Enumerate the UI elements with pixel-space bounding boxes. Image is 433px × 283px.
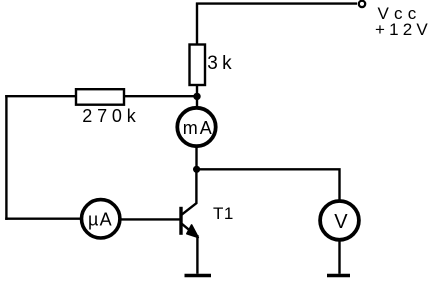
svg-text:3k: 3k [207,53,235,74]
transistor T1 emitter [182,224,197,237]
svg-text:270k: 270k [82,106,140,126]
svg-text:T1: T1 [213,204,234,223]
svg-text:µA: µA [88,209,113,229]
microammeter U2 µA circle [82,200,120,238]
transistor T1 base bar [179,207,182,235]
transistor T1 emitter arrow [187,225,199,238]
wire ammeter to node B [195,146,197,169]
wire Vcc rail down to resistor R1 [196,3,198,45]
svg-text:V: V [334,211,348,233]
wire left rail to resistor R2 [5,95,76,97]
resistor R2 270k [76,89,124,105]
terminal Vcc (open circle) [359,1,365,7]
transistor T1 collector [182,169,197,215]
wire left rail bottom to microammeter [5,217,82,219]
wire microammeter to transistor base [120,218,180,220]
wire top horizontal Vcc rail [196,2,357,4]
wire left rail vertical [5,95,7,220]
wire voltmeter to ground [338,240,340,274]
voltmeter V circle [320,201,359,240]
node A junction dot [193,93,200,100]
node B junction dot [193,166,200,173]
wire resistor R1 to node A [196,85,198,106]
wire resistor R2 to node A [124,95,197,97]
svg-text:+12V: +12V [375,20,432,39]
ammeter U1 mA circle [177,108,215,146]
ground transistor emitter [185,274,212,278]
wire emitter down [196,235,198,274]
resistor R1 3k [190,45,206,86]
svg-text:mA: mA [183,118,214,138]
ground voltmeter [327,274,350,278]
wire node B to voltmeter branch [197,169,340,201]
